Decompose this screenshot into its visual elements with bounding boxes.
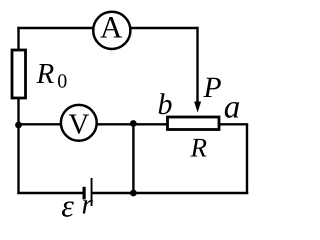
svg-text:a: a xyxy=(224,89,241,125)
svg-text:b: b xyxy=(158,88,173,121)
wire: from rheostat terminal a to right side xyxy=(220,123,248,125)
battery cell: long thin positive plate xyxy=(91,178,93,206)
svg-text:R: R xyxy=(36,58,55,90)
wire: left vertical side xyxy=(17,27,19,194)
wire: middle horizontal (voltmeter branch) xyxy=(17,123,166,125)
svg-text:0: 0 xyxy=(57,71,67,93)
wire: right vertical side xyxy=(246,124,248,194)
battery cell: short thick negative plate xyxy=(83,187,86,200)
wire: bottom horizontal right segment from battery to right corner xyxy=(92,192,249,194)
rheostat R (resistance box) xyxy=(168,117,220,130)
svg-text:R: R xyxy=(190,132,208,162)
svg-text:P: P xyxy=(203,72,222,104)
svg-text:V: V xyxy=(68,109,89,141)
resistor R0 xyxy=(12,50,26,98)
wire: top horizontal from left corner to ammeter and to top-right corner xyxy=(17,27,197,29)
ammeter A xyxy=(93,12,130,49)
node: junction dot mid wire (voltmeter / rheostat b / down wire) xyxy=(130,120,137,127)
wire: bottom horizontal left segment to battery xyxy=(17,192,83,194)
svg-text:r: r xyxy=(82,189,94,221)
svg-text:A: A xyxy=(100,9,123,44)
node: junction dot left (R0 / voltmeter / battery branch) xyxy=(15,122,22,129)
wire: middle vertical from mid junction down to bottom wire xyxy=(132,124,134,194)
wire: top-right vertical down to slider arrow xyxy=(196,27,198,104)
node: junction dot bottom wire xyxy=(130,190,137,197)
voltmeter V xyxy=(61,105,97,141)
svg-text:ε: ε xyxy=(61,188,74,224)
slider arrow P (wiper, pointing down onto rheostat R) xyxy=(194,102,201,113)
